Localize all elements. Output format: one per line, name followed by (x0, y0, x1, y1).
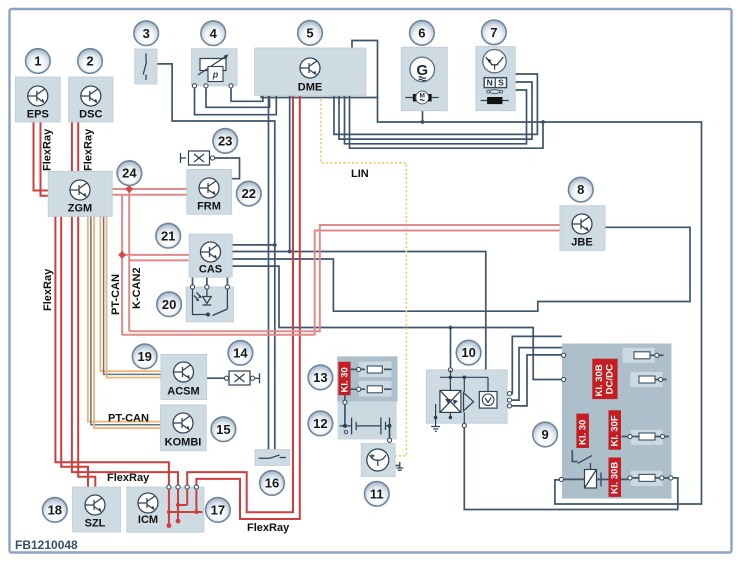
fuse row1 (562, 353, 566, 357)
svg-text:PT-CAN: PT-CAN (108, 413, 149, 425)
svg-text:N: N (487, 78, 493, 88)
badge 14 (228, 341, 253, 366)
fuse panel 13 (337, 356, 397, 401)
badge 23 (213, 129, 238, 154)
svg-text:ACSM: ACSM (167, 386, 199, 398)
badge 6 (410, 21, 435, 46)
wire battery7 stub2 to DME (339, 82, 532, 139)
control unit EPS (15, 77, 60, 122)
badge 10 (456, 340, 481, 365)
label KL30 (576, 414, 589, 448)
wire LIN bus dotted (321, 95, 406, 456)
control unit DME (255, 48, 366, 96)
wire module10 out3 to fuse row1 (510, 355, 564, 406)
svg-text:FlexRay: FlexRay (42, 128, 54, 171)
wire CAS line3 to JBE right (232, 227, 690, 311)
relay (572, 450, 577, 462)
fuse row3 (622, 436, 628, 438)
K-CAN2 salmon vertical a (128, 189, 130, 331)
junction diamond 24b (118, 251, 126, 259)
badge 2 (78, 49, 103, 74)
svg-text:2: 2 (86, 54, 93, 69)
svg-text:Kl. 30: Kl. 30 (339, 367, 350, 392)
power distribution panel 9 (559, 344, 673, 499)
switch 16 (255, 450, 290, 466)
FlexRay red: DSC pair to ZGM (71, 122, 73, 171)
svg-text:9: 9 (541, 427, 548, 442)
svg-text:KOMBI: KOMBI (165, 437, 202, 449)
label KL30F (609, 410, 622, 449)
svg-text:p: p (212, 70, 219, 80)
label KL30B (609, 458, 622, 497)
connector 14 (224, 371, 259, 385)
svg-text:10: 10 (461, 345, 475, 360)
wire module10 out1 (510, 336, 562, 393)
svg-text:PT-CAN: PT-CAN (110, 274, 122, 315)
svg-text:5: 5 (306, 26, 313, 41)
svg-text:SZL: SZL (85, 518, 106, 530)
K-CAN2 salmon vertical b (121, 195, 123, 335)
svg-text:24: 24 (122, 166, 137, 181)
wire DME bottom-left stub (261, 95, 377, 98)
wire DME fourth to bus (350, 95, 544, 148)
interface box 20 (186, 285, 233, 322)
svg-text:S: S (498, 78, 504, 88)
badge 9 (533, 422, 558, 447)
svg-text:3: 3 (143, 26, 150, 41)
wire CAS to interface20 lead2 (206, 277, 208, 285)
junction DME fourth bus (541, 120, 545, 124)
FlexRay red: ZGM down to SZL b (78, 216, 95, 487)
svg-text:FlexRay: FlexRay (107, 472, 150, 484)
wire CAS line1 to switch3 net (232, 244, 275, 246)
badge 21 (156, 223, 181, 248)
wire generator6 motor to bus (422, 111, 424, 123)
FlexRay red: DME line to ICM t4 (196, 95, 299, 519)
svg-text:7: 7 (490, 25, 497, 40)
svg-text:DSC: DSC (79, 109, 102, 121)
wire sensor4 t1 up into DME (195, 86, 277, 115)
wire module10 out2 (510, 348, 562, 401)
control unit CAS (189, 234, 232, 277)
wire DME drop to box16 (268, 95, 270, 450)
badge 1 (26, 49, 51, 74)
svg-text:6: 6 (418, 26, 425, 41)
wire regulator11 ground lead (395, 465, 400, 467)
FlexRay red: EPS pair to ZGM (34, 122, 49, 191)
badge 22 (237, 181, 262, 206)
svg-text:21: 21 (161, 228, 175, 243)
battery unit 7 (476, 47, 515, 111)
badge 15 (211, 417, 236, 442)
wire battery7 stub3 to DME (345, 90, 527, 144)
svg-text:G: G (416, 62, 428, 79)
K-CAN orange group to ACSM (100, 216, 160, 371)
svg-text:K-CAN2: K-CAN2 (131, 267, 143, 309)
svg-text:22: 22 (242, 186, 256, 201)
svg-text:1: 1 (34, 54, 41, 69)
wire fuse row2 feed (564, 379, 637, 381)
switch 3 (135, 49, 157, 84)
svg-text:14: 14 (233, 346, 248, 361)
K-CAN2 salmon: ZGM to FRM pair (112, 188, 187, 190)
wire connector23 to FRM (215, 158, 240, 179)
svg-text:Kl. 30B: Kl. 30B (594, 364, 605, 396)
battery 12 (338, 395, 397, 443)
control unit DSC (69, 77, 113, 122)
FlexRay red: DME line to ICM t3 (187, 95, 293, 512)
svg-text:ZGM: ZGM (68, 203, 92, 215)
control unit SZL (73, 487, 121, 532)
svg-text:ICM: ICM (138, 514, 158, 526)
wire battery7 stub1 to DME (334, 74, 537, 134)
svg-text:FlexRay: FlexRay (247, 522, 290, 534)
svg-text:DC/DC: DC/DC (605, 364, 616, 394)
junction branch10 (449, 326, 453, 330)
wire CAS line2 to module10 top (232, 252, 486, 370)
badge 4 (201, 21, 226, 46)
wire DME drop to CAS line2 (289, 95, 291, 252)
control unit ZGM (48, 171, 112, 216)
K-CAN2 salmon: pair to CAS (122, 254, 189, 256)
wire module10 bottom to fuse row4 (464, 426, 678, 510)
svg-text:FB1210048: FB1210048 (15, 538, 78, 552)
svg-text:19: 19 (137, 349, 151, 364)
wire switch3 down to CAS and box16 (157, 64, 275, 451)
svg-text:Kl. 30B: Kl. 30B (609, 462, 620, 494)
svg-text:4: 4 (210, 26, 218, 41)
generator and starter 6 (401, 47, 447, 110)
wire fuse row1 feed (564, 354, 634, 356)
wire CAS line4 to fuse row2 (232, 266, 563, 379)
badge 5 (298, 21, 323, 46)
wire ACSM to connector14 (207, 377, 227, 379)
svg-text:CAS: CAS (199, 264, 222, 276)
control unit ICM (127, 485, 204, 532)
electronic module 10 (426, 368, 511, 432)
svg-text:LIN: LIN (351, 168, 369, 180)
badge 17 (206, 498, 231, 523)
control unit JBE (560, 206, 605, 251)
junction CAS line1 (273, 243, 277, 247)
svg-text:FlexRay: FlexRay (83, 128, 95, 171)
badge 11 (365, 482, 390, 507)
svg-text:Kl. 30: Kl. 30 (577, 420, 588, 445)
FlexRay red: ZGM down to SZL a (61, 216, 88, 487)
sensor 4 (192, 49, 238, 88)
fuse row2 (562, 377, 566, 381)
svg-text:JBE: JBE (571, 237, 592, 249)
svg-text:Kl. 30F: Kl. 30F (609, 415, 620, 446)
PT-CAN orange group to KOMBI (88, 216, 160, 421)
junction motor bus (421, 120, 425, 124)
wire sensor4 t3 up into DME (231, 86, 263, 102)
wire CAS to interface20 lead1 (192, 277, 194, 285)
wire sensor4 t2 up into DME (206, 86, 270, 108)
badge 7 (482, 20, 507, 45)
svg-text:8: 8 (577, 182, 584, 197)
svg-text:15: 15 (216, 422, 230, 437)
control unit FRM (187, 169, 232, 214)
regulator 11 (361, 444, 403, 477)
wire DME top loop to right-side bus KL30 feed (352, 41, 702, 505)
K-CAN2 salmon: star run to JBE (129, 225, 560, 331)
wire branch to module10 top terminal (450, 328, 452, 368)
badge 16 (260, 471, 285, 496)
badge 3 (134, 21, 159, 46)
svg-text:FlexRay: FlexRay (42, 268, 54, 311)
svg-text:12: 12 (313, 416, 327, 431)
svg-text:23: 23 (218, 134, 232, 149)
junction DME drop (288, 250, 292, 254)
badge 24 (117, 161, 142, 186)
svg-text:M: M (419, 92, 424, 99)
FlexRay red: ZGM down to ICM t1 (55, 216, 168, 487)
control unit ACSM (161, 354, 207, 399)
svg-text:DME: DME (298, 82, 322, 94)
wire CAS to interface20 lead3 (226, 277, 228, 285)
connector 23 (181, 151, 215, 165)
svg-text:16: 16 (265, 476, 279, 491)
svg-text:11: 11 (370, 486, 384, 501)
badge 12 (308, 411, 333, 436)
svg-text:FRM: FRM (197, 201, 221, 213)
badge 8 (569, 177, 594, 202)
svg-text:EPS: EPS (27, 109, 49, 121)
fuse row4 (628, 476, 632, 480)
control unit KOMBI (160, 405, 206, 451)
junction diamond 24a (125, 185, 133, 193)
label KL30B DC/DC (592, 359, 617, 399)
svg-text:17: 17 (211, 503, 225, 518)
badge 13 (308, 365, 333, 390)
badge 19 (132, 344, 157, 369)
svg-text:18: 18 (48, 503, 62, 518)
FlexRay red: ZGM down to ICM t2 (72, 216, 178, 487)
svg-text:13: 13 (313, 370, 327, 385)
badge 20 (157, 292, 182, 317)
badge 18 (43, 498, 68, 523)
svg-text:20: 20 (162, 297, 176, 312)
